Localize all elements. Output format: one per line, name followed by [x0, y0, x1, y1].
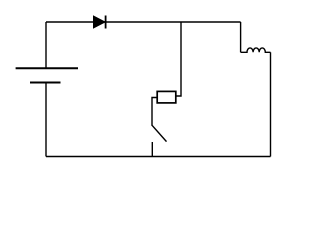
wire: battery - plate down to bottom-left corner	[45, 83, 47, 157]
wire: bottom rail	[46, 156, 271, 158]
wire: branch vertical from top rail down to resistor right lead	[176, 22, 181, 96]
inductor L1 (three loops)	[241, 48, 271, 52]
wire: top-right vertical down to inductor	[240, 22, 242, 52]
diode D1 (anode left, cathode right)	[93, 16, 105, 29]
wire: resistor left lead to switch pivot	[152, 98, 157, 126]
battery (cell): long positive plate	[16, 67, 78, 69]
wire: top rail from top-left corner to top-right corner	[46, 21, 241, 23]
switch (open, blade from pivot swinging down-right)	[152, 125, 167, 157]
battery (cell): short negative plate	[30, 82, 61, 84]
resistor (box style)	[157, 91, 176, 103]
wire: right vertical from inductor to bottom-right corner	[270, 52, 272, 156]
wire: left vertical from battery + plate up to top-left corner	[45, 22, 47, 68]
